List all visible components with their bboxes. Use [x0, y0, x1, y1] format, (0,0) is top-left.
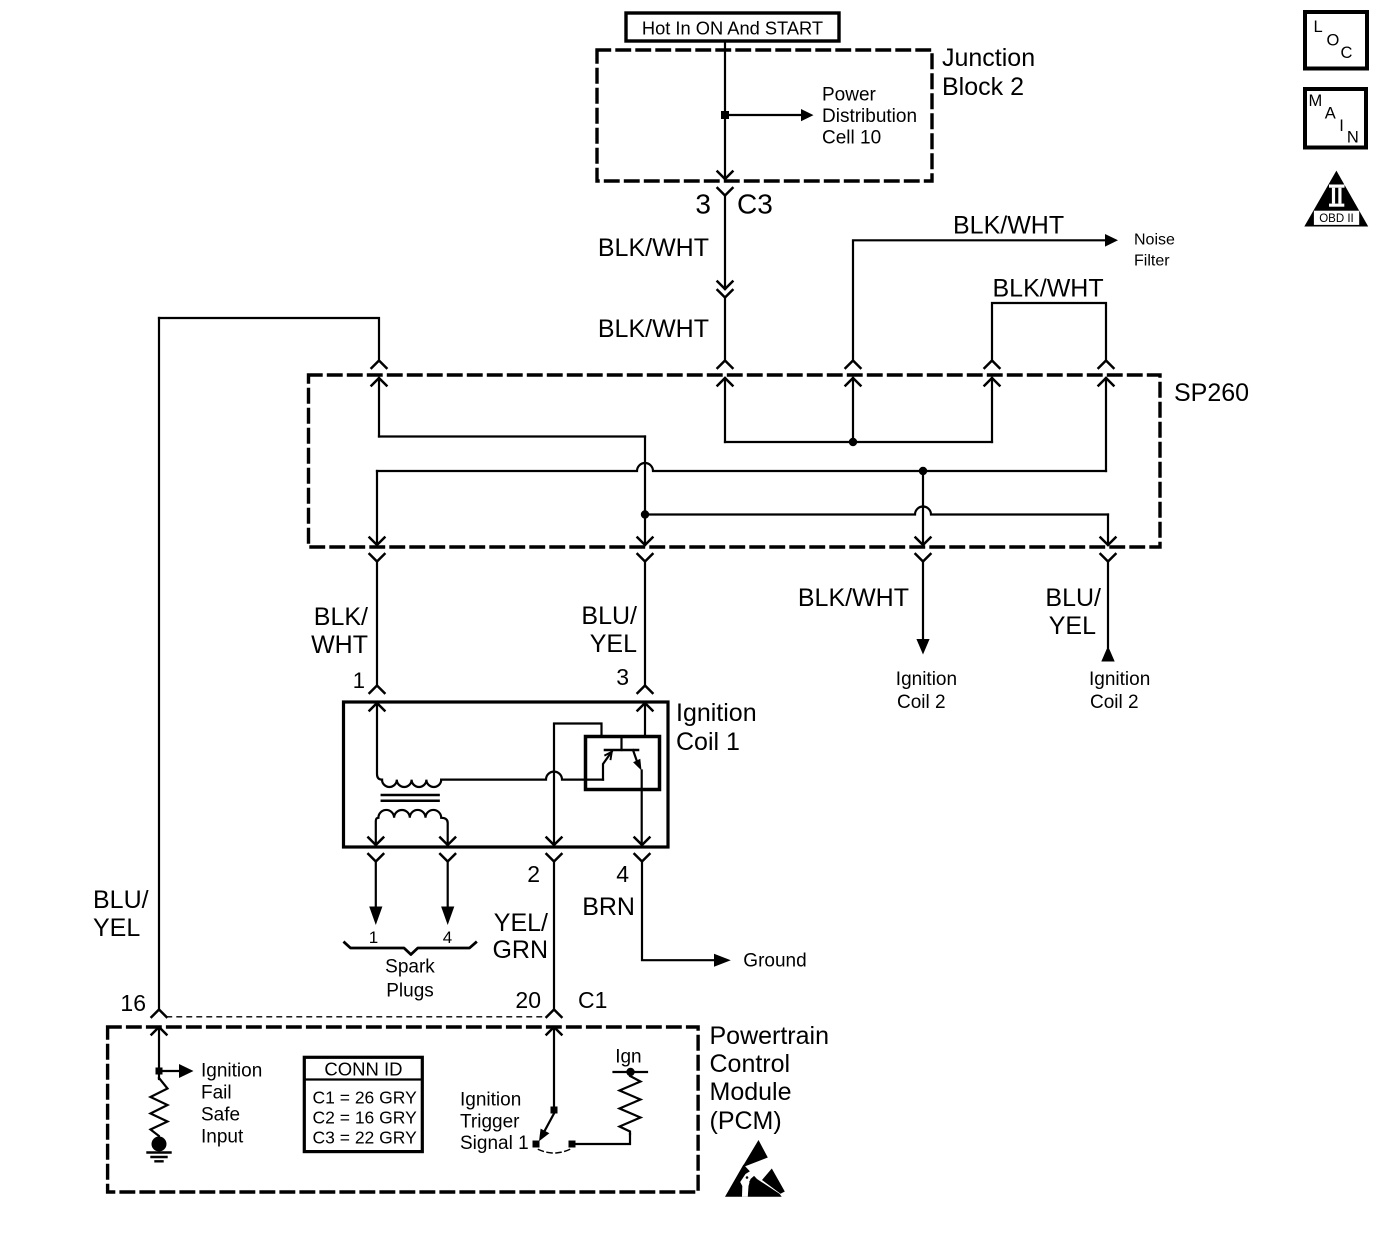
arrow to spark plug 4	[441, 907, 454, 926]
svg-text:Coil 2: Coil 2	[897, 692, 946, 713]
arrow to ground	[714, 954, 731, 967]
PCM dashed box	[108, 1027, 699, 1192]
switch S1: upper contact	[551, 1107, 558, 1114]
wire inside SP260: line 3 (BLU/YEL to coil 2) with hop	[645, 507, 1108, 515]
label BLU/YEL (left run)	[93, 886, 149, 942]
connector at SP260 top, BLK/WHT main	[718, 361, 733, 386]
svg-text:Ignition: Ignition	[460, 1090, 521, 1111]
svg-text:Plugs: Plugs	[386, 981, 434, 1002]
svg-text:Trigger: Trigger	[460, 1112, 520, 1133]
wire: branch to Power Distribution	[725, 114, 801, 116]
svg-text:BLU/: BLU/	[581, 602, 637, 630]
connector at coil 1 pin 3	[638, 686, 653, 711]
node: dot on Ign bar	[626, 1068, 634, 1076]
MAIN corner symbol	[1305, 89, 1366, 148]
svg-text:Signal 1: Signal 1	[460, 1133, 529, 1154]
svg-text:Input: Input	[201, 1127, 244, 1148]
svg-text:Spark: Spark	[385, 957, 435, 978]
wire inside SP260: BLU/YEL entry to line 1	[378, 378, 380, 437]
secondary winding of coil 1	[376, 810, 448, 845]
wire inside SP260: BLK/WHT down to coil 1 pin 1	[376, 471, 378, 545]
switch S1: dashed travel arc	[539, 1150, 570, 1154]
wire inside SP260: main feed to bus	[724, 378, 726, 442]
svg-text:(PCM): (PCM)	[710, 1107, 782, 1135]
svg-text:Ign: Ign	[615, 1047, 641, 1068]
wire BLU/YEL from PCM pin 16 up and over to SP260	[159, 318, 379, 361]
svg-text:Hot In ON And START: Hot In ON And START	[642, 18, 823, 39]
switch S1: arm	[542, 1114, 554, 1136]
wire inside SP260: line 2 (BLK/WHT distribution) with hop over BLU/YEL	[377, 463, 1106, 471]
wire inside SP260: bridge right leg down to distribution line	[1105, 378, 1107, 471]
svg-text:A: A	[1325, 105, 1336, 123]
connector at SP260 top, bridge left	[985, 361, 1000, 386]
svg-text:BRN: BRN	[582, 893, 635, 921]
wire BLK/WHT to ignition coil 2	[922, 562, 924, 640]
svg-text:BLU/: BLU/	[1045, 584, 1101, 612]
node: dot on line 2	[919, 467, 927, 475]
svg-text:I: I	[1339, 117, 1344, 135]
CONN ID table	[304, 1057, 422, 1151]
svg-text:YEL: YEL	[590, 630, 637, 658]
svg-text:O: O	[1327, 31, 1340, 49]
wire: pin 20 into PCM to switch	[553, 1027, 555, 1107]
wire: pin 3 feed to transistor box	[644, 703, 646, 737]
transistor Q1: emitter arrowhead	[605, 752, 612, 759]
wire: branch to Ignition Fail Safe Input	[159, 1070, 178, 1072]
svg-text:Safe: Safe	[201, 1105, 240, 1126]
wire to Noise Filter	[853, 240, 1105, 360]
switch S1: right contact	[569, 1141, 576, 1148]
label Spark Plugs	[385, 957, 435, 1002]
connector at SP260 bottom, pin 3 wire	[638, 538, 653, 562]
svg-text:BLK/WHT: BLK/WHT	[953, 212, 1064, 240]
transistor Q1: collector arrowhead	[633, 759, 641, 771]
svg-text:3: 3	[616, 664, 629, 690]
arrow from ignition coil 2 (pointing up)	[1101, 646, 1114, 662]
connector C1 line (thin dashed)	[167, 1016, 546, 1018]
wire to spark plug 1	[375, 862, 377, 908]
svg-text:C3 = 22 GRY: C3 = 22 GRY	[313, 1128, 418, 1148]
connector at SP260 bottom, coil 2 BLU/YEL	[1101, 538, 1116, 562]
svg-text:BLK/WHT: BLK/WHT	[598, 234, 709, 262]
svg-text:YEL: YEL	[1049, 612, 1096, 640]
svg-text:OBD II: OBD II	[1319, 213, 1354, 225]
svg-text:Ignition: Ignition	[201, 1061, 262, 1082]
ignition coil 1 box	[344, 702, 669, 847]
connector at coil 1 spark plug pin (left)	[368, 838, 383, 862]
wire: pin 2 base wire inside coil	[554, 724, 602, 846]
node: contact square on pin 16 wire	[156, 1068, 163, 1075]
svg-text:Noise: Noise	[1134, 232, 1175, 249]
wire: pin 1 into coil primary	[377, 703, 382, 780]
connector at coil 1 pin 4	[635, 838, 650, 862]
Ign supply bar	[614, 1071, 648, 1073]
ESD sensitive symbol	[725, 1140, 785, 1197]
wire inside SP260: BLK/WHT down to ignition coil 2	[922, 471, 924, 545]
wire inside SP260: BLU/YEL right leg down	[1107, 515, 1109, 546]
label BLK/WHT (pin 1 wire)	[311, 603, 368, 659]
wire BLK/WHT to SP260	[724, 298, 726, 361]
svg-text:C: C	[1341, 44, 1353, 62]
label Ignition Coil 2 (right)	[1089, 669, 1150, 713]
label Junction Block 2	[942, 44, 1035, 101]
svg-text:M: M	[1309, 92, 1323, 110]
label Noise Filter	[1134, 232, 1175, 270]
switch S1: arm arrowhead	[539, 1129, 549, 1142]
arrow to spark plug 1	[369, 907, 382, 926]
LOC corner symbol	[1305, 12, 1367, 69]
transistor box of coil 1 driver	[586, 737, 660, 790]
connector at SP260 bottom, coil 2 BLK/WHT	[916, 538, 931, 562]
resistor R2 (Ign pull-up)	[620, 1072, 641, 1134]
transistor Q1: emitter leg	[603, 752, 612, 780]
wire inside SP260: BLU/YEL vertical with junction	[644, 437, 646, 546]
svg-text:1: 1	[369, 928, 378, 947]
wire: pin 16 into PCM	[158, 1027, 160, 1079]
svg-text:2: 2	[527, 861, 540, 887]
svg-text:BLK/WHT: BLK/WHT	[798, 584, 909, 612]
transistor Q1: collector leg	[633, 750, 637, 761]
wire inside SP260: noise branch	[852, 378, 854, 442]
node: terminal dot	[152, 1137, 167, 1152]
connector at coil 1 spark plug pin (right)	[440, 838, 455, 862]
connector at coil 1 pin 2	[547, 838, 562, 862]
connector C3 exit of junction block	[718, 172, 733, 196]
inline connector on BLK/WHT wire	[718, 282, 733, 298]
transistor Q1: base bar	[605, 749, 638, 752]
svg-text:Power: Power	[822, 85, 877, 106]
core lines of coil 1	[382, 795, 439, 801]
svg-text:BLK/: BLK/	[314, 603, 368, 631]
svg-text:L: L	[1314, 18, 1323, 36]
svg-text:4: 4	[616, 861, 629, 887]
svg-text:WHT: WHT	[311, 631, 368, 659]
junction block 2 dashed box	[597, 50, 932, 181]
svg-text:16: 16	[120, 990, 146, 1016]
arrow to Power Distribution	[801, 109, 814, 121]
wire inside SP260: line 1 (BLU/YEL)	[379, 435, 645, 437]
svg-text:BLK/WHT: BLK/WHT	[993, 275, 1104, 303]
wire: primary to transistor emitter with hop over pin 2 wire	[441, 772, 603, 780]
wire: collector output to pin 4	[641, 771, 643, 846]
label Ignition Trigger Signal 1	[460, 1090, 529, 1155]
label BLU/YEL (pin 3 wire)	[581, 602, 637, 658]
svg-text:Ignition: Ignition	[896, 669, 957, 690]
label Ignition Coil 2 (left)	[896, 669, 957, 713]
svg-text:3: 3	[695, 189, 711, 220]
arrow to ignition coil 2	[916, 639, 929, 655]
svg-text:1: 1	[353, 668, 365, 693]
power source box "Hot In ON And START"	[626, 13, 839, 41]
svg-text:Powertrain: Powertrain	[710, 1022, 830, 1050]
svg-text:Coil 2: Coil 2	[1090, 692, 1139, 713]
svg-text:Ground: Ground	[743, 951, 806, 972]
connector at coil 1 pin 1	[370, 686, 385, 711]
connector at SP260 bottom, pin 1 wire	[370, 538, 385, 562]
label BLU/YEL (coil 2 trigger)	[1045, 584, 1101, 640]
connector at SP260 top, noise filter branch	[846, 361, 861, 386]
svg-text:N: N	[1347, 129, 1359, 147]
wire YEL/GRN from pin 2 to PCM pin 20	[553, 862, 555, 1010]
svg-text:C2 = 16 GRY: C2 = 16 GRY	[313, 1108, 418, 1128]
svg-text:Filter: Filter	[1134, 253, 1170, 270]
label Powertrain Control Module (PCM)	[710, 1022, 830, 1135]
svg-text:Coil 1: Coil 1	[676, 728, 740, 756]
node: dot on BLU/YEL vertical	[641, 510, 649, 518]
svg-text:Control: Control	[710, 1050, 791, 1078]
wire: hot feed down through junction block	[724, 41, 726, 179]
brace under spark plug wires	[345, 943, 476, 955]
svg-text:YEL: YEL	[93, 914, 140, 942]
svg-text:C1 = 26 GRY: C1 = 26 GRY	[313, 1088, 418, 1108]
svg-text:YEL/: YEL/	[494, 909, 548, 937]
wire BLU/YEL left run to PCM pin 16	[158, 318, 160, 1010]
transistor Q1: bar hanger	[620, 738, 622, 750]
svg-text:Ignition: Ignition	[676, 699, 757, 727]
wire to spark plug 4	[447, 862, 449, 908]
label Power Distribution Cell 10	[822, 85, 917, 149]
label Ignition Coil 1	[676, 699, 757, 756]
svg-text:C1: C1	[578, 987, 607, 1013]
svg-text:C3: C3	[737, 189, 773, 220]
wire BLU/YEL from ignition coil 2	[1107, 562, 1109, 648]
node: splice dot on bus	[849, 438, 857, 446]
svg-text:4: 4	[443, 928, 452, 947]
svg-text:BLK/WHT: BLK/WHT	[598, 315, 709, 343]
arrow Ignition Fail Safe Input	[179, 1064, 194, 1078]
wire BLK/WHT bridge over SP260	[992, 303, 1106, 361]
label YEL/GRN	[492, 909, 548, 964]
wire: switch to Ign resistor	[576, 1134, 631, 1144]
svg-text:Junction: Junction	[942, 44, 1035, 72]
wire BLU/YEL to coil 1 pin 3	[644, 562, 646, 686]
svg-text:Fail: Fail	[201, 1083, 232, 1104]
svg-text:CONN ID: CONN ID	[324, 1059, 402, 1080]
OBD II symbol	[1304, 171, 1368, 227]
ground symbol	[148, 1153, 171, 1162]
wire BLK/WHT from C3	[724, 196, 726, 290]
svg-text:Ignition: Ignition	[1089, 669, 1150, 690]
svg-text:Block 2: Block 2	[942, 73, 1024, 101]
svg-text:GRN: GRN	[492, 936, 548, 964]
connector at SP260 top, BLU/YEL entry	[372, 361, 387, 386]
connector at PCM pin 16	[152, 1010, 167, 1035]
svg-text:Distribution: Distribution	[822, 106, 917, 127]
svg-text:BLU/: BLU/	[93, 886, 149, 914]
SP260 splice pack dashed box	[309, 375, 1161, 547]
connector at SP260 top, bridge right	[1099, 361, 1114, 386]
wire BLK/WHT to coil 1 pin 1	[376, 562, 378, 686]
wire BRN from pin 4 to ground	[642, 862, 714, 961]
arrow to Noise Filter	[1105, 234, 1118, 247]
primary winding of coil 1	[382, 780, 441, 787]
resistor R1 (fail safe pull)	[151, 1078, 168, 1138]
label Ignition Fail Safe Input	[201, 1061, 262, 1148]
svg-text:SP260: SP260	[1174, 379, 1249, 407]
connector at PCM pin 20	[547, 1010, 562, 1035]
switch S1: left contact	[533, 1141, 540, 1148]
node: junction square in junction block	[721, 111, 729, 119]
svg-text:Module: Module	[710, 1078, 792, 1106]
svg-text:Cell 10: Cell 10	[822, 128, 881, 149]
svg-text:20: 20	[515, 987, 541, 1013]
wire inside SP260: bus line	[725, 441, 992, 443]
wire inside SP260: bridge left leg	[991, 378, 993, 442]
